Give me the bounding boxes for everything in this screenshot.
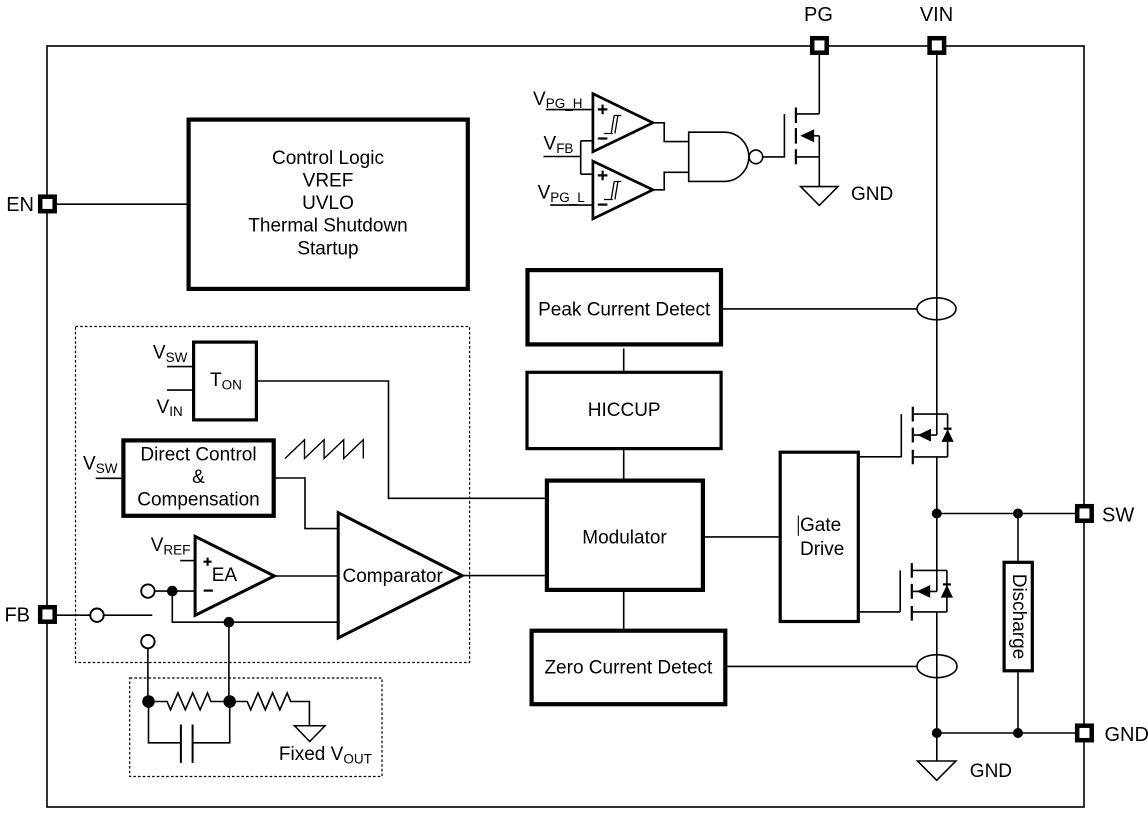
svg-text:Gate: Gate — [800, 515, 841, 536]
node GND (Q2 source) — [932, 728, 942, 738]
wire GND rail — [937, 732, 1077, 734]
wire Gate Drive to Q2 gate — [860, 611, 900, 613]
svg-text:VPG_H: VPG_H — [533, 89, 582, 111]
svg-text:VIN: VIN — [157, 397, 183, 419]
wire divider contact down — [147, 648, 149, 701]
wire Modulator to Gate Drive — [705, 536, 779, 538]
wire VSW to TON — [167, 366, 192, 368]
pin VIN — [930, 38, 945, 53]
wire Gate Drive to Q1 gate — [860, 456, 901, 458]
svg-text:Control Logic: Control Logic — [272, 148, 384, 169]
svg-text:SW: SW — [1102, 505, 1134, 527]
block Gate Drive — [780, 452, 858, 621]
svg-text:Fixed VOUT: Fixed VOUT — [279, 744, 372, 766]
capacitor C1 — [149, 702, 230, 763]
svg-text:Thermal Shutdown: Thermal Shutdown — [248, 216, 407, 237]
block Zero Current Detect — [532, 631, 726, 705]
svg-text:TON: TON — [210, 370, 242, 392]
svg-text:VREF: VREF — [151, 535, 191, 557]
svg-text:GND: GND — [970, 761, 1012, 782]
block Discharge — [1004, 562, 1032, 671]
svg-text:Discharge: Discharge — [1008, 574, 1029, 660]
NAND gate U4 — [689, 132, 749, 181]
wire FB pad to switch — [57, 614, 152, 616]
sawtooth waveform symbol — [285, 440, 363, 459]
ground symbol (power) — [918, 761, 956, 780]
block Peak Current Detect — [528, 270, 722, 344]
pin GND — [1077, 726, 1092, 741]
pin FB — [40, 607, 55, 622]
body diode D2 — [941, 570, 953, 612]
svg-text:VPG_L: VPG_L — [538, 183, 586, 205]
node divider top — [142, 695, 155, 708]
wire Zero Current Detect to sense A2 — [727, 665, 917, 667]
wire feedback rail down to divider tap — [228, 622, 230, 701]
text cursor artifact — [797, 516, 799, 536]
wire VREF to EA — [180, 560, 195, 562]
wire EN pad to Control Logic — [57, 203, 188, 205]
svg-text:HICCUP: HICCUP — [588, 400, 661, 421]
pin SW — [1077, 506, 1092, 521]
block Direct Control & Compensation — [123, 440, 273, 515]
wire Comparator output to Modulator — [462, 575, 545, 577]
node feedback rail — [224, 617, 235, 628]
wire Peak Current Detect to HICCUP — [623, 349, 625, 371]
svg-text:Peak Current Detect: Peak Current Detect — [538, 299, 711, 320]
switch contact (to divider) — [141, 635, 154, 648]
transistor Q1 (high-side NMOS) — [901, 407, 947, 465]
wire EA output to Comparator — [274, 575, 338, 577]
svg-text:Drive: Drive — [800, 539, 844, 560]
pin EN — [40, 197, 55, 212]
node EA inverting input — [167, 586, 178, 597]
wire VPG_H input — [546, 109, 593, 111]
block TON — [194, 342, 257, 420]
wire VPG_L input — [550, 204, 593, 206]
wire VIN to TON — [167, 389, 192, 391]
wire Q1 source to SW node — [936, 457, 938, 514]
current sense A2 (zero) — [917, 655, 957, 678]
switch contact (FB) — [90, 609, 103, 622]
svg-text:VSW: VSW — [83, 454, 118, 476]
NAND output bubble — [749, 150, 763, 164]
resistor R1 — [155, 693, 224, 710]
svg-text:Direct Control: Direct Control — [140, 444, 256, 465]
block Modulator — [547, 481, 703, 590]
wire Direct Control to Comparator — [276, 478, 339, 529]
svg-text:Comparator: Comparator — [343, 566, 444, 587]
svg-text:VREF: VREF — [303, 171, 354, 192]
svg-text:VSW: VSW — [153, 343, 188, 365]
svg-text:EN: EN — [6, 194, 34, 216]
node GND discharge tap — [1013, 728, 1023, 738]
svg-text:GND: GND — [851, 184, 893, 205]
svg-text:Modulator: Modulator — [582, 527, 667, 548]
node SW (Q1 source) — [932, 509, 942, 519]
svg-text:PG: PG — [804, 4, 833, 26]
pin PG — [812, 38, 827, 53]
block HICCUP — [527, 372, 721, 448]
node SW discharge tap — [1013, 509, 1023, 519]
wire NAND output to Q3 gate — [763, 156, 785, 158]
wire Modulator to Zero Current Detect — [623, 592, 625, 629]
wire U2 output to NAND — [653, 123, 689, 142]
wire Discharge to GND rail — [1017, 672, 1019, 733]
dotted block fixed output divider — [130, 678, 382, 777]
wire VFB input — [544, 141, 593, 174]
wire Q3 drain to PG pad — [818, 55, 820, 114]
ground symbol (divider) — [295, 726, 326, 742]
wire EA node to feedback rail — [172, 591, 338, 622]
wire SW rail — [937, 513, 1077, 515]
svg-text:GND: GND — [1105, 724, 1148, 746]
svg-text:&: & — [192, 467, 205, 488]
svg-text:Zero Current Detect: Zero Current Detect — [544, 658, 713, 679]
dotted block feedback control region — [76, 327, 470, 663]
wire switch pole to EA inverting input — [155, 590, 196, 592]
comparator U5 — [338, 513, 462, 638]
block Control Logic — [189, 120, 468, 289]
wire GND node to ground symbol — [936, 733, 938, 761]
resistor R2 — [236, 693, 309, 726]
comparator U2 (power-good high) — [593, 94, 653, 152]
wire SW node down to Q2 — [936, 514, 938, 592]
wire VIN pad down to Q1 — [936, 55, 938, 435]
switch contact (to EA) — [141, 584, 154, 597]
op-amp EA — [195, 536, 274, 615]
svg-text:EA: EA — [212, 565, 238, 586]
wire TON path to Modulator input — [258, 381, 545, 498]
wire SW tap to Discharge — [1017, 514, 1019, 561]
body diode D1 — [942, 414, 954, 457]
comparator U3 (power-good low) — [593, 161, 653, 219]
svg-text:VIN: VIN — [920, 4, 953, 26]
wire VSW to Direct Control — [96, 477, 122, 479]
svg-text:FB: FB — [4, 605, 30, 627]
svg-text:Startup: Startup — [297, 238, 358, 259]
transistor Q3 (PG pull-down PMOS) — [784, 108, 819, 165]
wire Peak Current Detect to sense A1 — [723, 308, 917, 310]
ground symbol (Q3 source) — [801, 187, 838, 206]
svg-text:UVLO: UVLO — [302, 193, 354, 214]
wire Q3 source down — [818, 136, 820, 187]
wire U3 output to NAND — [653, 172, 689, 190]
node divider tap — [223, 695, 236, 708]
current sense A1 (peak) — [917, 298, 956, 320]
transistor Q2 (low-side NMOS) — [900, 563, 947, 621]
wire HICCUP to Modulator — [623, 449, 625, 479]
wire Q2 source to GND node — [936, 612, 938, 733]
svg-text:VFB: VFB — [544, 134, 574, 156]
svg-text:Compensation: Compensation — [137, 489, 260, 510]
